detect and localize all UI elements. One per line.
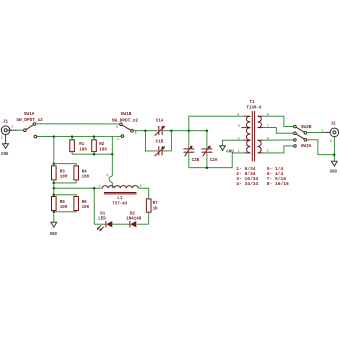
wire left column from SW1A lower throw down: [53, 137, 55, 166]
wire R1/R2 bottoms to tap line: [72, 153, 112, 155]
wire branch down to C1B: [145, 131, 157, 151]
svg-text:J2: J2: [331, 123, 337, 127]
capacitor C2A (variable): [202, 131, 218, 168]
svg-text:8- 16/16: 8- 16/16: [267, 181, 289, 187]
wire T1 pin7 to SW2B: [263, 128, 294, 134]
wire node B: C1 output to C2 tops: [171, 130, 207, 132]
wire T1 pin8 to SW2B: [263, 116, 294, 126]
capacitor C1B (variable): [155, 140, 172, 156]
svg-text:100: 100: [79, 148, 87, 152]
junction at R4 bottom tee: [53, 182, 56, 185]
svg-text:C1A: C1A: [156, 119, 164, 123]
transformer T1 T130-6: [237, 101, 268, 161]
junction at L1 wire tee: [53, 187, 56, 190]
svg-text:100: 100: [82, 206, 90, 210]
svg-text:100: 100: [60, 176, 68, 180]
wire SW2B pole to J2: [307, 132, 326, 134]
wire tap line down to L1 pin 2 with one-turn loop: [106, 137, 112, 189]
svg-text:L1: L1: [117, 197, 123, 201]
svg-text:GND: GND: [1, 153, 9, 157]
wire L1 pin3 to R7: [138, 188, 148, 199]
svg-text:R1: R1: [79, 143, 85, 147]
svg-text:1k: 1k: [153, 207, 159, 212]
svg-text:D1: D1: [100, 212, 106, 216]
resistor R6: [74, 197, 90, 211]
winding table text: [236, 166, 289, 187]
svg-text:2: 2: [330, 139, 332, 143]
junction at R2 top: [93, 135, 96, 138]
svg-text:6: 6: [135, 131, 137, 135]
svg-text:GND: GND: [226, 151, 234, 155]
wire D2 to R7 bottom: [137, 223, 149, 225]
svg-text:1: 1: [322, 129, 324, 133]
ground GND below R5/R6: [50, 222, 58, 237]
wire R7 bottom: [148, 212, 150, 224]
resistor R5: [52, 197, 68, 211]
svg-text:1: 1: [98, 184, 100, 188]
svg-text:4: 4: [237, 112, 239, 116]
node: junction dot: [144, 129, 147, 132]
switch SW2A: [294, 134, 312, 149]
svg-text:SW1B: SW1B: [121, 112, 132, 117]
svg-text:SW_DPDT_x2: SW_DPDT_x2: [112, 119, 139, 124]
junction at R1 top: [71, 135, 74, 138]
junction at L1 pin 1 / detector leg: [93, 187, 96, 190]
junction at tap line / R1R2 bottom wire: [111, 153, 114, 156]
switch SW1A: [16, 112, 43, 138]
wire to L1 pin 1: [54, 187, 103, 189]
resistor R4: [74, 166, 90, 180]
wire R6 top: [54, 195, 76, 197]
svg-text:SW1A: SW1A: [24, 112, 35, 117]
svg-text:R6: R6: [82, 201, 88, 205]
svg-text:C2B: C2B: [192, 159, 200, 163]
wire J2 pin2 down: [333, 137, 335, 155]
junction at R3 column / lower rail: [53, 135, 56, 138]
switch SW1B: [112, 112, 139, 141]
diode D2 1N4148: [126, 212, 142, 227]
resistor R2: [92, 137, 108, 155]
wire D1 to D2: [112, 223, 129, 225]
wire R4 bottom: [54, 180, 76, 183]
transformer L1 T37-43: [98, 184, 141, 206]
wire left leg down from L1 pin1 node: [93, 188, 95, 224]
wire SW2A pole to ground node: [307, 140, 335, 155]
resistor R1: [70, 137, 88, 155]
wire T1 pin5 to SW2A: [263, 146, 294, 153]
junction at R5/R6 bottoms: [53, 211, 56, 214]
wire SW1B to C1A with junction: [133, 130, 158, 132]
right winding pins 8-7 and 6-5: [258, 116, 262, 127]
wire lower rail (node A) from SW1A throw to tap line: [37, 136, 121, 138]
node: C1 right junction: [170, 129, 173, 132]
wire R5/R6 bottoms: [54, 211, 76, 212]
junction at R4 top tee: [53, 162, 56, 165]
svg-text:LED: LED: [98, 217, 106, 221]
svg-text:100: 100: [99, 148, 107, 152]
svg-text:4: 4: [117, 137, 119, 141]
wire T1 pin6 to SW2A: [263, 139, 294, 141]
svg-text:R3: R3: [60, 170, 66, 174]
ground GND at T1 pin2: [220, 146, 234, 155]
junction at J2 pin 2 / SW2A pole: [333, 153, 336, 156]
resistor R7: [146, 199, 158, 212]
svg-text:D2: D2: [130, 212, 136, 216]
svg-text:1: 1: [11, 125, 13, 129]
wire column between R3 and R5: [53, 180, 55, 197]
junction at C2A bottom: [206, 166, 209, 169]
wire bottom loop segments: [94, 223, 105, 225]
junction at C2A top: [206, 129, 209, 132]
wire top rail to T1 pin 4: [189, 116, 244, 131]
svg-text:3: 3: [140, 184, 142, 188]
wire bottom rail C2 to T1 pin 1: [189, 153, 244, 168]
ground GND at J1: [1, 135, 9, 158]
svg-text:C2A: C2A: [210, 159, 218, 163]
svg-text:GND: GND: [50, 233, 58, 237]
junction at R2 bottom: [93, 153, 96, 156]
svg-text:SW_DPDT_x2: SW_DPDT_x2: [16, 118, 43, 123]
svg-text:4- 34/34: 4- 34/34: [236, 181, 258, 187]
ground GND at J2: [330, 155, 338, 175]
svg-text:GND: GND: [330, 170, 338, 174]
svg-text:5: 5: [116, 125, 118, 129]
svg-text:C1B: C1B: [156, 140, 164, 144]
left winding pins 4-3-2-1: [246, 116, 250, 153]
svg-text:3: 3: [238, 124, 240, 128]
svg-text:T37-43: T37-43: [112, 202, 128, 206]
svg-text:1: 1: [238, 149, 240, 153]
svg-text:SW2B: SW2B: [301, 125, 312, 130]
connector J1: [1, 120, 17, 140]
svg-text:J1: J1: [3, 120, 9, 124]
svg-text:R5: R5: [60, 201, 66, 205]
svg-text:1N4148: 1N4148: [126, 217, 142, 221]
capacitor C1A (variable): [155, 119, 172, 135]
junction at C2B top: [188, 129, 191, 132]
svg-text:R4: R4: [82, 170, 88, 174]
wire top rail from SW1A to SW1B: [36, 123, 120, 125]
switch SW2B: [294, 125, 312, 134]
junction at R6 top tee: [53, 194, 56, 197]
svg-text:R7: R7: [153, 202, 159, 206]
svg-text:100: 100: [82, 176, 90, 180]
svg-text:2: 2: [106, 173, 108, 177]
svg-text:T130-6: T130-6: [246, 106, 262, 110]
resistor R3: [52, 166, 68, 180]
diode D1 LED: [97, 212, 113, 231]
svg-text:T1: T1: [249, 101, 255, 105]
wire T1 pin2 to ground: [223, 140, 244, 146]
connector J2: [322, 123, 339, 143]
svg-text:2: 2: [1, 136, 3, 140]
wire to R4 top: [54, 164, 76, 166]
svg-text:SW2A: SW2A: [301, 144, 312, 149]
wire joining C1A/C1B right sides: [170, 131, 172, 151]
svg-text:100: 100: [60, 206, 68, 210]
svg-text:R2: R2: [99, 143, 105, 147]
capacitor C2B (variable): [183, 131, 199, 168]
